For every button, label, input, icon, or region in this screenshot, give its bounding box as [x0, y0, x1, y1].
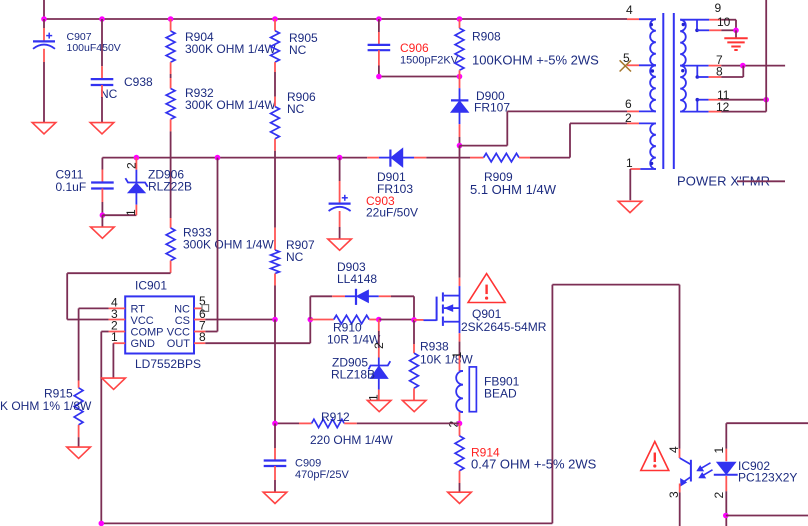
warning triangle near Q901: [468, 274, 505, 303]
svg-text:RLZ22B: RLZ22B: [148, 180, 192, 194]
svg-text:VCC: VCC: [131, 315, 154, 327]
resistor R933 300K OHM 1/4W: [166, 228, 175, 261]
resistor R910 10R 1/4W: [334, 315, 369, 323]
wire pin4 RT to R915: [79, 307, 109, 309]
capacitor C903 bottom lead: [339, 211, 341, 227]
capacitor C903 22uF/50V polarized: [329, 203, 351, 205]
wire top HV bus: [44, 18, 627, 20]
capacitor C911 top lead: [101, 158, 103, 170]
svg-text:1: 1: [124, 209, 138, 216]
node junction CS R907 R912: [272, 317, 278, 323]
svg-text:300K OHM 1/4W: 300K OHM 1/4W: [185, 98, 276, 112]
svg-text:1: 1: [111, 330, 118, 344]
svg-text:3: 3: [667, 491, 681, 498]
pin 3 VCC stub: [109, 319, 126, 321]
wire POWER X'FMR dash: [737, 180, 785, 182]
wire R906 to R907 crossing VCC bus: [274, 139, 276, 151]
wire Q901 source to FB901: [459, 333, 461, 341]
ground below C909: [263, 492, 287, 503]
svg-text:NC: NC: [289, 43, 307, 57]
resistor R912 right lead: [344, 422, 357, 424]
node junction IC902 pin 2 branch: [723, 513, 729, 519]
svg-text:PC123X2Y: PC123X2Y: [738, 471, 797, 485]
capacitor C938 bottom lead: [101, 85, 103, 97]
wire pin 10: [696, 20, 698, 31]
resistor R914 bottom lead: [459, 471, 461, 483]
node junction pin9 pin10: [733, 28, 739, 34]
svg-text:NC: NC: [174, 304, 190, 316]
node junction C903 on VCC bus: [337, 155, 343, 161]
svg-text:2: 2: [712, 492, 726, 499]
wire transformer pin 1 to ground: [629, 169, 631, 200]
svg-text:Q901: Q901: [472, 307, 502, 321]
pin 8 OUT stub: [194, 342, 205, 344]
svg-text:10K 1/8W: 10K 1/8W: [420, 353, 473, 367]
wire pin 8: [696, 66, 698, 77]
zener diode ZD906 RLZ22B: [125, 178, 147, 187]
wire IC902 pin 2 branch right: [726, 515, 808, 517]
wire bottom bus COMP net: [101, 522, 552, 524]
svg-text:OUT: OUT: [167, 338, 191, 350]
capacitor C903 top lead: [339, 158, 341, 181]
diode D900 cathode lead: [459, 112, 461, 124]
wire COMP net right vertical: [551, 285, 553, 524]
IC902 light arrows: [699, 463, 711, 470]
resistor R914 top lead: [459, 423, 461, 436]
wire COMP net top horizontal: [552, 284, 679, 286]
wire gate stub: [414, 319, 424, 321]
wire drain vertical to Q901: [459, 146, 461, 278]
diode D900 FR107 anode lead: [459, 77, 461, 89]
svg-text:1: 1: [712, 447, 726, 454]
svg-text:1: 1: [450, 352, 464, 359]
node junction COMP vertical bottom bus: [99, 521, 105, 526]
wire IC902 pin 1 anode up and right: [725, 449, 727, 462]
diode D901 FR103: [389, 150, 391, 167]
svg-text:COMP: COMP: [131, 327, 164, 339]
svg-text:12: 12: [716, 100, 730, 114]
ground below IC901 GND: [102, 378, 126, 389]
svg-text:0.47 OHM +-5% 2WS: 0.47 OHM +-5% 2WS: [471, 457, 597, 472]
resistor R932 300K OHM 1/4W: [166, 89, 175, 120]
wire R912 line from CS node: [275, 422, 299, 424]
svg-text:IC901: IC901: [135, 279, 167, 293]
node junction R910 ZD905: [376, 317, 382, 323]
wire R904 to R932: [170, 62, 172, 74]
inductor FB901 BEAD: [460, 370, 464, 372]
pin 4 RT stub: [109, 307, 126, 309]
wire CS node down to R912: [274, 320, 276, 424]
svg-text:NC: NC: [286, 250, 304, 264]
diode D901 FR103 cathode lead: [367, 157, 379, 159]
svg-text:0.1uF: 0.1uF: [56, 180, 87, 194]
wire pin6 CS to R912 branch: [205, 319, 275, 321]
resistor R938 10K 1/8W: [410, 353, 419, 388]
transformer POWER X'FMR core: [662, 13, 664, 169]
wire D901 to R909 crossing drain: [426, 157, 470, 159]
wire IC902 pin 3 emitter down: [679, 484, 681, 493]
pin 5 NC stub with no-connect box: [194, 307, 202, 309]
svg-text:RT: RT: [131, 304, 146, 316]
wire pin8 OUT to gate drive network: [205, 342, 310, 344]
svg-text:K OHM 1% 1/8W: K OHM 1% 1/8W: [0, 399, 92, 413]
node junction FB901 R914 R912: [457, 421, 463, 427]
capacitor C911 bottom lead: [101, 189, 103, 203]
svg-text:8: 8: [199, 330, 206, 344]
diode D903 anode lead: [368, 295, 378, 297]
svg-text:470pF/25V: 470pF/25V: [295, 469, 349, 481]
resistor R905 NC: [271, 31, 280, 62]
wire pin2 COMP down to bottom bus: [101, 331, 108, 333]
node junction R904 on HV bus: [168, 16, 174, 22]
wire to earth ground: [735, 30, 737, 37]
wire D903 branch down right side: [391, 295, 414, 297]
resistor R908 bottom lead: [459, 70, 461, 76]
zener diode ZD906 pin 2 lead: [135, 158, 137, 170]
svg-text:2: 2: [125, 162, 139, 169]
wire pin 12: [680, 111, 708, 113]
pin 7 VCC stub: [194, 331, 205, 333]
diode D900 FR107: [451, 99, 468, 101]
node junction R908 on HV bus: [457, 16, 463, 22]
node junction R905 on HV bus: [272, 16, 278, 22]
zener diode ZD905 RLZ18B: [369, 361, 391, 369]
wire IC902 pin 2 cathode down: [725, 476, 727, 491]
diode D903 LL4148 cathode lead: [332, 295, 345, 297]
transformer primary winding pin2-pin1: [627, 122, 639, 124]
capacitor C909 top lead: [274, 423, 276, 448]
ground below C903: [328, 239, 352, 250]
wire right vertical to top edge: [765, 0, 767, 112]
wire pin 9: [680, 19, 709, 21]
svg-text:R938: R938: [420, 340, 449, 354]
svg-text:LL4148: LL4148: [337, 272, 377, 286]
node junction D900 transformer pin6 drain: [457, 143, 463, 149]
pin 6 CS stub: [194, 319, 205, 321]
node junction pin11 right vertical: [763, 97, 769, 103]
wire COMP net down to IC902 pin 4: [679, 285, 681, 449]
wire pin 11: [696, 100, 698, 112]
svg-text:4: 4: [626, 3, 633, 17]
node junction C906 bottom: [376, 74, 382, 80]
diode IC902 LED: [717, 462, 736, 474]
svg-text:BEAD: BEAD: [484, 387, 517, 401]
resistor R914 0.47 OHM +-5% 2WS: [455, 436, 464, 471]
capacitor C907 top lead: [43, 19, 45, 28]
resistor R912 220 OHM 1/4W: [312, 419, 345, 427]
svg-text:220 OHM 1/4W: 220 OHM 1/4W: [310, 433, 393, 447]
svg-text:C906: C906: [400, 41, 429, 55]
resistor R910 right lead: [369, 319, 379, 321]
zener diode ZD905 pin 1 lead: [378, 378, 380, 389]
wire pin1 GND to ground: [112, 343, 114, 378]
wire ZD905 node to gate node: [379, 319, 414, 321]
svg-text:CS: CS: [175, 315, 190, 327]
svg-text:100KOHM +-5% 2WS: 100KOHM +-5% 2WS: [472, 53, 599, 68]
wire C911 node to ground: [101, 215, 103, 227]
capacitor C907 100uF450V polarized: [33, 40, 55, 42]
svg-text:NC: NC: [287, 102, 305, 116]
no-connect X on pin 5: [620, 60, 631, 71]
ground below transformer pin 1: [618, 201, 642, 212]
svg-text:RLZ18B: RLZ18B: [331, 368, 375, 382]
node junction ZD906 on VCC bus: [134, 155, 140, 161]
node junction pin7 pin8: [740, 63, 746, 69]
ground below C938: [90, 123, 114, 134]
resistor R904 300K OHM 1/4W: [166, 31, 175, 62]
svg-text:300K OHM 1/4W: 300K OHM 1/4W: [183, 238, 274, 252]
svg-text:2SK2645-54MR: 2SK2645-54MR: [461, 320, 547, 334]
pin 2 COMP stub: [109, 331, 126, 333]
capacitor C906 bottom lead: [378, 50, 380, 65]
svg-text:R908: R908: [472, 30, 501, 44]
svg-text:C938: C938: [124, 75, 153, 89]
wire R905 to R906: [274, 62, 276, 72]
warning triangle near IC902: [641, 442, 669, 471]
node junction C906 on HV bus: [376, 16, 382, 22]
capacitor C907 bottom lead: [43, 49, 45, 62]
node junction C911 ZD906 bottom: [100, 212, 106, 218]
wire D900 junction to transformer pin 6: [460, 145, 508, 147]
svg-text:8: 8: [716, 65, 723, 79]
resistor R910 left lead: [310, 319, 334, 321]
earth ground symbol: [724, 37, 747, 39]
node junction IC901 pin7 branch on VCC bus: [215, 155, 221, 161]
svg-text:1: 1: [626, 156, 633, 170]
node junction gate R938 D903: [411, 317, 417, 323]
resistor R915 bottom lead: [78, 425, 80, 437]
capacitor C911 0.1uF: [91, 181, 114, 183]
wire R932 to R933 crossing VCC bus: [170, 119, 172, 131]
resistor R915 K OHM 1% 1/8W: [74, 388, 83, 425]
resistor R907 NC: [271, 250, 280, 274]
capacitor C909 470pF/25V: [264, 459, 287, 461]
inductor FB901 bottom lead: [459, 412, 461, 423]
svg-text:10: 10: [717, 15, 731, 29]
svg-text:9: 9: [715, 1, 722, 15]
wire C911 bottom to ZD906 bottom: [102, 214, 136, 216]
ground below R938: [402, 400, 426, 411]
capacitor C909 bottom lead: [274, 466, 276, 480]
wire VCC bus horizontal: [102, 157, 367, 159]
resistor R938 bottom lead: [413, 388, 415, 400]
node junction R908 bottom D900 anode: [457, 74, 463, 80]
resistor R908 100KOHM +-5% 2WS: [455, 28, 464, 70]
svg-text:FR107: FR107: [474, 101, 510, 115]
svg-text:100uF450V: 100uF450V: [67, 42, 121, 54]
transformer primary winding pin4-pin6: [627, 18, 639, 20]
resistor R909 5.1 OHM 1/4W: [484, 153, 519, 161]
wire R907 bottom to CS node: [274, 274, 276, 286]
pin 1 GND stub: [113, 342, 125, 344]
transformer secondary winding pin9-pin7: [680, 20, 686, 66]
svg-text:2: 2: [372, 342, 386, 349]
zener diode ZD906 pin 1 lead: [135, 193, 137, 205]
resistor R915 top lead: [78, 381, 80, 388]
wire C906 bottom to R908 bottom: [379, 76, 460, 78]
ground below C907: [32, 123, 56, 134]
capacitor C906 top lead: [378, 19, 380, 32]
svg-text:LD7552BPS: LD7552BPS: [135, 357, 201, 371]
svg-text:22uF/50V: 22uF/50V: [366, 206, 418, 220]
svg-text:VCC: VCC: [167, 327, 190, 339]
zener diode ZD905 pin 2 lead: [378, 320, 380, 332]
svg-text:6: 6: [625, 97, 632, 111]
transformer secondary winding pin7-pin12: [680, 66, 686, 112]
resistor R908 top lead: [459, 19, 461, 28]
node junction OUT R910 D903: [308, 317, 314, 323]
svg-text:FR103: FR103: [377, 182, 413, 196]
wire VCC bus to IC901 pin 7: [217, 158, 219, 332]
wire D903 branch up left side: [309, 296, 311, 319]
resistor R938 top lead: [413, 320, 415, 344]
op-amp IC901 LD7552BPS body: [125, 296, 194, 353]
svg-text:C909: C909: [295, 458, 321, 470]
wire R933 bottom to IC901 pin 3 VCC: [170, 261, 172, 273]
ground below ZD905: [367, 400, 391, 411]
node junction C938 branch on HV bus: [99, 16, 105, 22]
svg-text:5.1 OHM 1/4W: 5.1 OHM 1/4W: [470, 182, 557, 197]
svg-text:1500pF2KV: 1500pF2KV: [400, 55, 459, 67]
wire R909 to transformer pin 2: [519, 157, 530, 159]
wire pin 7: [680, 65, 708, 67]
ground below R914: [448, 492, 472, 503]
svg-text:2: 2: [625, 111, 632, 125]
svg-text:300K OHM 1/4W: 300K OHM 1/4W: [185, 42, 276, 56]
capacitor C938 NC: [91, 78, 114, 80]
ground below R915: [67, 447, 91, 458]
diode D901 anode lead: [403, 157, 414, 159]
svg-text:R912: R912: [321, 410, 350, 424]
node junction R912 C909: [272, 421, 278, 427]
capacitor C906 1500pF2KV: [368, 44, 391, 46]
resistor R904 top lead: [170, 19, 172, 31]
svg-text:GND: GND: [131, 338, 156, 350]
diode D903 LL4148: [355, 289, 357, 305]
wire HV input vertical from top edge: [43, 0, 45, 19]
resistor R906 NC: [271, 107, 280, 139]
node junction C907 on HV bus: [41, 16, 47, 22]
resistor R905 top lead: [274, 19, 276, 31]
ground below C911: [91, 227, 115, 238]
svg-text:4: 4: [667, 446, 681, 453]
capacitor C938 top lead: [101, 19, 103, 66]
transistor Q901 2SK2645-54MR MOSFET: [436, 297, 438, 321]
